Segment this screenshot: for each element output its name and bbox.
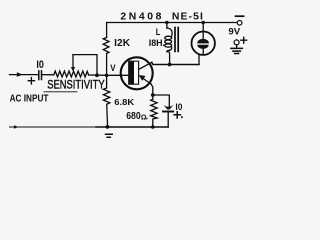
node pot right terminal: [95, 73, 99, 77]
svg-text:AC INPUT: AC INPUT: [10, 93, 49, 104]
wire riser to inductor: [167, 52, 170, 65]
underline SENSITIVITY: [44, 91, 77, 93]
input arrow top: [17, 72, 23, 77]
svg-text:Ω: Ω: [141, 114, 147, 121]
wire emitter to output cap: [153, 95, 170, 108]
battery minus bar: [236, 15, 244, 17]
node inductor top on rail: [165, 21, 169, 25]
neon lamp NE-51 envelope: [192, 32, 215, 55]
resistor R4 680 ohm: [151, 99, 157, 127]
wire riser to neon: [198, 54, 200, 64]
emitter arrow (PNP, points toward base bar): [139, 75, 146, 81]
resistor R3 6.8K: [103, 75, 109, 127]
resistor R2 12K: [103, 38, 109, 54]
polarity + (output cap): [174, 112, 180, 118]
neon upper electrode: [197, 39, 209, 44]
node bottom rail junction: [106, 125, 110, 129]
wire plus terminal to ground: [236, 45, 238, 48]
polarity + (input cap): [28, 78, 34, 84]
node emitter junction: [151, 93, 155, 97]
ground (battery): [231, 48, 243, 53]
wire wiper to right terminal: [73, 55, 97, 76]
ground (signal, below bottom rail): [106, 134, 113, 137]
transistor collector lead: [139, 62, 152, 69]
node 680 bottom junction: [151, 125, 155, 129]
wire top input lead: [10, 74, 39, 76]
capacitor C2 10uF curved plate: [164, 105, 174, 110]
wire neon top lead: [202, 23, 204, 40]
wire pot to base node: [89, 74, 107, 76]
wire 12K to base node: [106, 54, 108, 76]
svg-text:I8H: I8H: [149, 38, 163, 48]
wire top rail: [107, 22, 238, 24]
wire cap to bottom rail: [167, 112, 169, 128]
transistor emitter lead: [141, 77, 152, 84]
wire left column top: [106, 23, 108, 38]
battery minus terminal circle: [237, 21, 242, 26]
svg-text:NE-5I: NE-5I: [172, 11, 204, 22]
wire inductor top lead: [166, 23, 168, 29]
label 18H period: [163, 44, 165, 46]
inductor core lines: [174, 28, 176, 52]
svg-text:V: V: [110, 63, 116, 73]
svg-text:I2K: I2K: [114, 38, 131, 49]
svg-text:9V: 9V: [228, 27, 240, 38]
inductor L1 coil 18H: [167, 28, 172, 36]
node base junction: [105, 74, 109, 78]
transistor Q1 2N408 circle: [121, 57, 153, 89]
potentiometer wiper arrow: [72, 55, 74, 68]
capacitor C2 straight plate: [163, 111, 173, 113]
wire collector node horizontal: [152, 62, 199, 64]
svg-text:I0: I0: [36, 59, 44, 71]
battery plus terminal circle: [234, 40, 239, 45]
node collector junction: [168, 63, 172, 67]
svg-text:6.8K: 6.8K: [114, 97, 135, 107]
wire base lead: [107, 74, 129, 76]
neon lower electrode: [197, 45, 208, 49]
wire emitter down: [151, 84, 153, 99]
transistor base bar: [129, 61, 139, 84]
battery plus sign: [241, 37, 247, 43]
capacitor C1 10uF input: [38, 71, 40, 80]
potentiometer R1 SENSITIVITY: [54, 71, 89, 77]
svg-text:SENSITIVITY: SENSITIVITY: [47, 77, 104, 91]
svg-text:2N408: 2N408: [120, 11, 164, 22]
node neon top on rail: [201, 21, 205, 25]
input arrow bottom: [14, 125, 18, 129]
neon lower lead: [202, 49, 204, 55]
svg-text:L: L: [156, 27, 161, 37]
wire bottom rail: [10, 126, 97, 128]
wire cap to potentiometer: [42, 74, 54, 76]
svg-text:680: 680: [126, 111, 141, 122]
